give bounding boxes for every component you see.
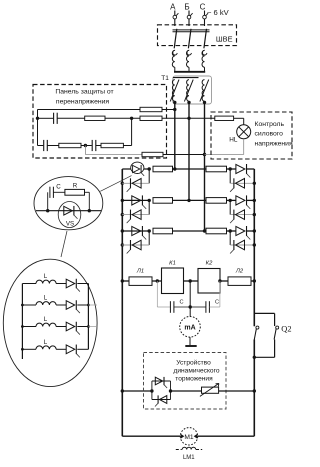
wire phase B above terminal [188, 11, 190, 16]
dynamic braking dashed box [144, 353, 227, 410]
breaker Q1 pole C blade [204, 29, 207, 49]
wire left join vertical row 2 [148, 200, 150, 214]
right DC bus wire upper [253, 169, 255, 326]
wire right join vertical row 3 [229, 231, 231, 245]
wire center vertical [189, 281, 191, 316]
wire phase C to lamp return [205, 154, 244, 156]
node capacitor center [189, 305, 192, 308]
svg-text:напряжения: напряжения [255, 141, 293, 148]
wire R4 to node M [81, 145, 92, 147]
breaker Q1 pole B fixed contact [187, 50, 191, 55]
node braking join [169, 389, 172, 392]
transformer T1 secondary winding A [172, 80, 174, 102]
resistor R2 (to phase B) [140, 116, 162, 120]
transformer T1 primary winding C [202, 50, 205, 67]
switchgear cubicle ShVE dashed box [158, 25, 237, 46]
breaker Q1 pole A blade [174, 29, 177, 49]
node detail2 left row 4 [21, 348, 24, 351]
wire lamp to return line [243, 139, 245, 155]
wire snubber left lead [157, 306, 170, 308]
thyristor detail2 row 4 [66, 345, 75, 354]
resistor R left row 2 [153, 198, 173, 204]
svg-text:L: L [44, 273, 48, 280]
left DC bus wire [121, 169, 123, 436]
svg-text:Б: Б [184, 3, 189, 12]
svg-text:C: C [215, 300, 219, 306]
transformer T1 primary winding B [187, 50, 190, 67]
wire braking top branch [151, 381, 153, 391]
gate stub row 3 [88, 326, 97, 328]
wire detail2 row 4 right [77, 348, 88, 350]
wire phase C vertical [204, 102, 206, 231]
wire right row 3b [230, 244, 254, 246]
svg-text:К2: К2 [206, 261, 213, 267]
breaker Q1 pole A fixed contact [173, 50, 177, 55]
svg-text:перенапряжения: перенапряжения [56, 98, 109, 105]
wire phase A above terminal [174, 11, 176, 16]
thyristor VS detail [64, 206, 73, 215]
wire C to R snubber [53, 191, 65, 193]
svg-text:LM1: LM1 [183, 455, 195, 461]
svg-text:Контроль: Контроль [255, 121, 285, 128]
wire meter to ground [189, 337, 191, 345]
svg-text:Q2: Q2 [281, 325, 291, 334]
svg-text:VS: VS [66, 221, 74, 228]
capacitor C1 panel [53, 113, 55, 124]
power voltage monitor dashed box [211, 112, 292, 159]
svg-text:динамического: динамического [173, 367, 219, 374]
node phase C - R6 [203, 153, 206, 156]
detail callout ellipse 2 [3, 259, 97, 386]
field winding LM1 lead dashes [176, 449, 182, 451]
wire right resistor to join [227, 199, 236, 201]
wire right resistor to join [227, 230, 236, 232]
breaker Q1 pole B blade [188, 29, 191, 49]
wire right thyristor to bus row 1a [247, 168, 255, 170]
resistor R right row 3 [206, 228, 227, 234]
wire phase B vertical [188, 102, 190, 200]
thyristor VS5 left row 3a [132, 226, 141, 235]
capacitor C snubber [49, 187, 51, 198]
wire phase A terminal to cubicle [174, 19, 176, 26]
node transformer secondary B [187, 101, 190, 104]
wire braking to resistor [171, 390, 202, 392]
wire right row 1a [175, 168, 206, 170]
resistor R6 (to phase C) [142, 152, 163, 156]
gate stub row 2 [88, 304, 97, 306]
wire braking right [219, 390, 255, 392]
right DC bus wire lower [253, 340, 255, 437]
svg-text:C: C [56, 184, 61, 191]
svg-text:L: L [44, 295, 48, 302]
wire snubber left riser [156, 281, 158, 307]
node left bus row 2a [121, 199, 124, 202]
motor M1 [180, 428, 197, 445]
svg-text:Устройство: Устройство [176, 358, 211, 366]
svg-text:ШВЕ: ШВЕ [216, 35, 233, 44]
node detail2 right row 3 [87, 325, 90, 328]
contactor K2 box [198, 269, 220, 294]
svg-text:Л1: Л1 [136, 268, 144, 274]
wire L1 to K1 [152, 280, 162, 282]
wire C2 to R4 [47, 145, 59, 147]
detail right bus [87, 284, 89, 350]
node right row 3 join [229, 229, 232, 232]
thyristor VS1 (circled, see detail) [131, 162, 144, 173]
node left bus row 1b [121, 182, 124, 185]
wire K2 to L2 [220, 280, 228, 282]
node right bus row 2b [253, 213, 256, 216]
wire R6 to phase C [163, 154, 205, 156]
node branch bottom [253, 356, 256, 359]
secondary star wire [173, 77, 199, 79]
wire center to C5 [190, 306, 206, 308]
reactor L1 box [129, 277, 152, 286]
thyristor VS6' right row 3b [236, 240, 245, 250]
node phase A - R1 [173, 108, 176, 111]
wire right row 2a [189, 199, 206, 201]
wire panel join vertical [131, 118, 133, 145]
breaker gang bar [173, 29, 210, 31]
thyristor VS6 right row 3a [236, 226, 245, 235]
leader line to VS1 detail [100, 176, 131, 192]
wire braking bottom branch [151, 391, 153, 400]
node left row 3 join [148, 229, 151, 232]
wire detail2 row 2 right [77, 304, 88, 306]
transformer T1 secondary enclosure [173, 76, 212, 104]
wire C1 to R3 [57, 117, 84, 119]
wire panel row 2 left [38, 145, 44, 147]
svg-text:HL: HL [229, 137, 238, 144]
wire left row 3a [122, 230, 149, 232]
resistor R3 panel [85, 116, 105, 120]
node snubber right [218, 279, 221, 282]
wire detail2 row 1 left [22, 283, 36, 285]
thyristor detail2 row 3 [66, 322, 75, 331]
thyristor VS ellipse [58, 202, 81, 228]
node panel row1 right [130, 117, 133, 120]
wire left row 2b [122, 214, 149, 216]
thyristor VS8 braking rev [159, 396, 166, 404]
wire panel line 1 [38, 109, 141, 111]
wire branch top [254, 312, 274, 314]
node right bus row 3b [253, 243, 256, 246]
wire left join vertical row 1 [148, 169, 150, 183]
node detail2 left row 2 [21, 304, 24, 307]
wire left resistor to phase A [173, 168, 175, 170]
terminal X2 phase B [187, 15, 191, 19]
switch Q2 contact [276, 326, 279, 329]
switch Q1m main contact [256, 326, 259, 329]
wire phase B terminal to cubicle [188, 19, 190, 26]
node right bus row 1b [253, 182, 256, 185]
node M panel mid [84, 144, 87, 147]
field winding LM1 [182, 447, 196, 449]
wire braking joins [170, 381, 172, 400]
node right row 1 join [229, 167, 232, 170]
detail wire through ellipse [36, 210, 101, 212]
wire right thyristor to bus row 3a [247, 230, 255, 232]
inductor L row 3 [36, 323, 56, 326]
node phase B - R2 [187, 117, 190, 120]
wire right resistor to join [227, 168, 236, 170]
node left bus DC [121, 279, 124, 282]
thyristor VS1' left row 1b [132, 179, 141, 189]
node right bus row 2a [253, 199, 256, 202]
wire snubber right riser [219, 281, 221, 307]
node left bus braking [121, 389, 124, 392]
wire detail2 row 4 mid [56, 348, 66, 350]
variable resistor R8 braking [202, 387, 219, 393]
milliammeter PA1 [180, 317, 201, 338]
svg-text:С: С [200, 3, 206, 12]
wire C4 to center [174, 306, 190, 308]
wire left resistor to phase B [173, 199, 190, 201]
svg-text:mA: mA [184, 325, 195, 332]
wire K1 to K2 [184, 280, 199, 282]
resistor R left row 1 [153, 166, 173, 172]
resistor R5 panel [101, 143, 123, 147]
capacitor C5 [205, 301, 207, 313]
wire phase C above terminal [204, 11, 206, 16]
thyristor VS3' left row 2b [132, 210, 141, 220]
thyristor VS3 left row 2a [132, 196, 141, 205]
node left row 2 join [148, 199, 151, 202]
wire R5 to join [123, 145, 131, 147]
wire panel row 1 left [38, 117, 54, 119]
wire R2 to phase B [162, 117, 189, 119]
wire braking left [122, 390, 152, 392]
transformer T1 primary winding A [172, 50, 174, 67]
wire phase B to monitor box [189, 117, 215, 119]
svg-text:торможения: торможения [175, 376, 213, 383]
wire bottom left [122, 435, 180, 437]
node detail2 left row 3 [21, 325, 24, 328]
wire bottom right [198, 435, 255, 437]
wire snubber riser left [47, 192, 49, 210]
svg-text:Панель защиты от: Панель защиты от [55, 88, 113, 95]
wire detail2 row 4 left [22, 348, 36, 350]
transformer T1 secondary winding B [187, 80, 189, 102]
transformer T1 secondary winding C [202, 80, 204, 102]
svg-text:L: L [44, 339, 48, 346]
wire node M drop [84, 146, 86, 155]
node snubber left [156, 279, 159, 282]
wire branch bottom [274, 340, 276, 358]
node center DC [189, 279, 192, 282]
wire detail2 row 2 left [22, 304, 36, 306]
wire left row 2a [122, 199, 149, 201]
node left row 1 join [148, 167, 151, 170]
ground [185, 345, 196, 347]
wire left resistor to phase C [173, 230, 205, 232]
reactor L2 box [228, 277, 251, 286]
svg-text:T1: T1 [161, 75, 169, 82]
node right bus braking [253, 389, 256, 392]
wire R1 to phase A [162, 109, 175, 111]
wire left row 1b [122, 182, 149, 184]
wire phase C terminal to cubicle [204, 19, 206, 26]
wire detail2 row 3 mid [56, 326, 66, 328]
terminal X3 phase C [203, 15, 207, 19]
thyristor VS4' right row 2b [236, 210, 245, 220]
capacitor C4 [169, 301, 171, 313]
wire R3 to node [105, 117, 140, 119]
node right row 2 join [229, 199, 232, 202]
wire detail2 row 3 right [77, 326, 88, 328]
contactor K1 box [162, 268, 184, 294]
node detail right [88, 209, 91, 212]
wire right join vertical row 2 [229, 200, 231, 214]
thyristor detail2 row 1 [66, 279, 75, 288]
node transformer secondary A [173, 101, 176, 104]
thyristor detail2 row 2 [66, 301, 75, 310]
resistor R right row 1 [206, 166, 227, 172]
node panel top tap [36, 117, 39, 120]
detail left bus [21, 284, 23, 360]
svg-text:M1: M1 [184, 434, 194, 441]
wire detail2 row 1 mid [56, 283, 66, 285]
node detail left [46, 209, 49, 212]
wire C3 to R5 [96, 145, 101, 147]
svg-text:А: А [170, 3, 176, 12]
wire L2 to right bus [251, 280, 254, 282]
wire left row 3b [122, 244, 149, 246]
inductor L row 2 [36, 302, 56, 305]
svg-text:C: C [179, 300, 183, 306]
node braking split [150, 389, 153, 392]
wire left join vertical row 3 [148, 231, 150, 245]
wire right row 1b [230, 182, 254, 184]
node left bus row 3b [121, 243, 124, 246]
wire right join vertical row 1 [229, 169, 231, 183]
wire R7 to lamp [234, 117, 244, 119]
resistor R left row 3 [153, 228, 173, 234]
leader line ellipse1 to ellipse2 [61, 231, 67, 257]
resistor R1 (to phase A) [140, 107, 162, 111]
resistor R4 panel [59, 143, 81, 147]
transformer T1 primary star bus [174, 71, 205, 73]
thyristor VS4 right row 2a [236, 196, 245, 205]
resistor R right row 2 [206, 198, 227, 204]
thyristor VS2' right row 1b [236, 179, 245, 189]
wire phase A vertical [174, 102, 176, 169]
resistor R7 monitor [215, 116, 234, 120]
resistor R snubber [65, 189, 85, 195]
terminal X1 phase A [173, 15, 177, 19]
wire detail2 row 1 right [77, 283, 88, 285]
wire right row 3a [205, 230, 207, 232]
svg-text:~ 6 kV: ~ 6 kV [207, 8, 230, 17]
svg-text:силового: силового [255, 131, 284, 138]
wire right row 2b [230, 214, 254, 216]
node phase A bridge [173, 167, 176, 170]
node phase C bridge [203, 229, 206, 232]
wire left row 1a [122, 168, 149, 170]
inductor L row 4 [36, 346, 56, 349]
panel left bus wire [37, 110, 39, 146]
wire detail2 row 3 left [22, 326, 36, 328]
wire left bus to L1 [122, 280, 129, 282]
svg-text:К1: К1 [169, 261, 176, 267]
breaker Q1 pole C fixed contact [203, 50, 207, 55]
wire node M to R6 [85, 154, 142, 156]
wire right thyristor to bus row 2a [247, 199, 255, 201]
detail callout ellipse 1 [34, 177, 103, 230]
lamp HL [237, 125, 251, 139]
thyristor VS7 braking fwd [155, 377, 162, 385]
node phase B bridge [187, 199, 190, 202]
svg-text:Л2: Л2 [235, 268, 244, 274]
node detail2 right row 2 [87, 304, 90, 307]
node transformer secondary C [203, 101, 206, 104]
capacitor C2 panel [43, 140, 45, 151]
node right bus DC [253, 279, 256, 282]
node left bus row 2b [121, 213, 124, 216]
svg-text:L: L [44, 316, 48, 323]
capacitor C3 panel [91, 140, 93, 151]
node right bus row 3a [253, 229, 256, 232]
thyristor VS2 right row 1a [236, 164, 245, 173]
thyristor VS5' left row 3b [132, 240, 141, 250]
svg-text:R: R [73, 182, 78, 189]
wire R snubber riser right [85, 191, 90, 193]
node left bus row 3a [121, 229, 124, 232]
inductor L row 1 [36, 280, 56, 283]
wire detail2 row 2 mid [56, 304, 66, 306]
overvoltage protection panel dashed box [33, 85, 167, 159]
wire C5 lead right [209, 306, 220, 308]
